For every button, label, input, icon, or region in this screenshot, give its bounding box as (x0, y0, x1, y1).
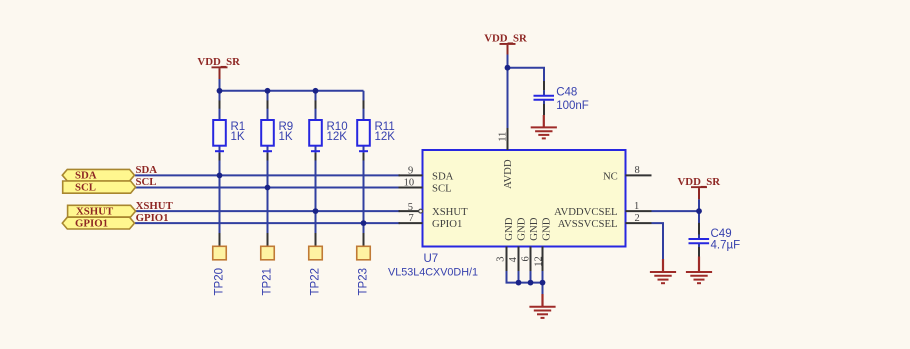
svg-text:C48: C48 (556, 87, 577, 99)
pin 9 SDA (399, 165, 454, 182)
svg-text:100nF: 100nF (556, 100, 589, 112)
pin 3 GND (bottom) (495, 217, 515, 271)
net label SCL (136, 176, 157, 188)
pin 4 GND (bottom) (508, 217, 528, 271)
svg-text:12K: 12K (375, 131, 396, 143)
svg-text:U7: U7 (424, 253, 439, 265)
wire: pin 2 to ground (652, 223, 664, 259)
pin 6 GND (bottom) (521, 217, 541, 271)
pin 7 GPIO1 (399, 213, 463, 230)
svg-text:TP20: TP20 (214, 268, 226, 296)
svg-text:9: 9 (408, 165, 413, 176)
svg-text:2: 2 (635, 213, 640, 224)
svg-text:SDA: SDA (75, 170, 97, 182)
test point TP21 (261, 233, 275, 296)
net label GPIO1 (136, 212, 169, 224)
pin 12 GND (bottom) (534, 217, 553, 271)
wire: SDA net horizontal (135, 174, 400, 176)
svg-text:C49: C49 (711, 228, 732, 240)
pin 8 NC (unconnected stub) (603, 165, 652, 182)
capacitor C49 (689, 223, 741, 257)
svg-text:GND: GND (541, 217, 553, 240)
svg-text:TP22: TP22 (310, 268, 322, 296)
svg-text:SCL: SCL (432, 182, 452, 194)
ground at pin 2 (650, 259, 676, 283)
ground under C49 (686, 257, 712, 284)
wire: GND pins connector (507, 271, 543, 294)
ground under C48 (531, 115, 557, 138)
wire: column R11/TP23 vertical (363, 91, 365, 247)
wire: column R10/TP22 vertical (315, 91, 317, 247)
pin 10 SCL (399, 177, 452, 194)
wire: column R9/TP21 vertical (267, 91, 269, 247)
port SDA (bidirectional) (62, 169, 134, 181)
resistor R11 (357, 100, 395, 160)
svg-text:GPIO1: GPIO1 (136, 212, 169, 224)
svg-text:NC: NC (603, 170, 618, 182)
svg-text:TP21: TP21 (262, 268, 274, 296)
IC U7 (388, 150, 626, 278)
svg-text:GND: GND (516, 217, 528, 240)
junction dot at AVDD branch (505, 65, 511, 71)
power symbol VDD_SR (top-center) (484, 33, 527, 55)
svg-text:12: 12 (534, 256, 545, 267)
wire: column R1/TP20 vertical (219, 91, 221, 247)
port GPIO1 (bidirectional) (62, 217, 134, 229)
test point TP22 (309, 233, 323, 296)
svg-text:AVSSVCSEL: AVSSVCSEL (558, 218, 618, 230)
svg-text:AVDD: AVDD (502, 159, 514, 189)
svg-text:SCL: SCL (136, 176, 157, 188)
net label XSHUT (136, 200, 174, 212)
wire: VDD_SR to AVDD pin vertical (507, 55, 509, 129)
test point TP20 (213, 233, 227, 296)
svg-text:3: 3 (495, 257, 506, 262)
wire: VDD node vertical to C49 (698, 199, 700, 234)
svg-text:12K: 12K (327, 131, 348, 143)
pin 11 AVDD (top) (497, 128, 513, 189)
svg-text:TP23: TP23 (358, 268, 370, 296)
svg-text:VDD_SR: VDD_SR (484, 33, 527, 45)
wire: branch to C48 (508, 68, 545, 91)
svg-text:1K: 1K (231, 131, 245, 143)
svg-text:4.7µF: 4.7µF (711, 239, 741, 251)
svg-text:SCL: SCL (75, 182, 96, 194)
svg-text:GPIO1: GPIO1 (432, 218, 462, 230)
power symbol VDD_SR (right) (678, 176, 721, 199)
svg-text:7: 7 (408, 213, 413, 224)
wire: GPIO1 net horizontal (135, 222, 400, 224)
svg-text:VDD_SR: VDD_SR (197, 56, 240, 68)
resistor R1 (213, 100, 245, 160)
svg-text:5: 5 (408, 202, 413, 213)
junction dots on signal wires (217, 173, 367, 227)
wire: SCL net horizontal (135, 187, 400, 189)
svg-text:11: 11 (497, 132, 508, 142)
power symbol VDD_SR (top-left) (197, 56, 240, 79)
net label SDA (136, 164, 158, 176)
junction dot at pin1/VDD node (696, 208, 702, 214)
ground below IC (529, 294, 555, 318)
capacitor C48 (534, 81, 589, 115)
port XSHUT (68, 205, 136, 217)
svg-text:GPIO1: GPIO1 (75, 218, 108, 230)
svg-text:SDA: SDA (136, 164, 158, 176)
svg-text:10: 10 (404, 177, 415, 188)
svg-text:4: 4 (508, 256, 519, 262)
svg-text:1K: 1K (279, 131, 293, 143)
pin 1 AVDDVCSEL (554, 201, 651, 218)
svg-text:VL53L4CXV0DH/1: VL53L4CXV0DH/1 (388, 266, 478, 278)
svg-text:XSHUT: XSHUT (432, 206, 468, 218)
svg-text:6: 6 (521, 256, 532, 261)
svg-text:GND: GND (503, 217, 515, 240)
junction dots on GND connector (516, 280, 546, 286)
svg-text:SDA: SDA (432, 170, 454, 182)
svg-text:1: 1 (634, 201, 639, 212)
junction dots on bus (217, 88, 319, 94)
svg-text:GND: GND (528, 217, 540, 240)
wire: pin1 to VDD_SR/C49 node (652, 210, 700, 212)
pin 5 XSHUT (active-low bubble) (399, 202, 469, 218)
port SCL (63, 181, 136, 194)
wire: resistor top bus (220, 79, 364, 91)
resistor R10 (309, 100, 347, 160)
resistor R9 (261, 100, 293, 160)
test point TP23 (357, 233, 371, 296)
svg-text:AVDDVCSEL: AVDDVCSEL (554, 206, 617, 218)
svg-text:XSHUT: XSHUT (136, 200, 174, 212)
svg-text:8: 8 (635, 165, 640, 176)
pin 2 AVSSVCSEL (558, 213, 652, 230)
svg-text:XSHUT: XSHUT (76, 206, 114, 218)
wire: XSHUT net horizontal (135, 210, 400, 212)
